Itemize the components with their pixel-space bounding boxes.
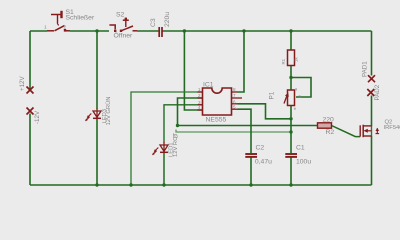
- wire trigger net to R2: [178, 125, 318, 127]
- junction top LED3: [95, 29, 98, 32]
- junction trigger net: [176, 124, 179, 127]
- junction pot net: [289, 117, 292, 120]
- junction R1 loop: [289, 76, 292, 79]
- wire wiper loop: [291, 78, 311, 98]
- switch S2: [109, 18, 137, 32]
- LED3: [85, 109, 101, 122]
- pin 5 stub of IC1: [232, 108, 238, 110]
- pin number 4: [198, 105, 201, 110]
- wire C1 to bottom: [290, 158, 292, 186]
- svg-text:2: 2: [198, 93, 201, 98]
- supply +12V pin cross: [27, 87, 34, 94]
- svg-text:4: 4: [198, 105, 201, 110]
- label C1 value: [296, 159, 311, 166]
- junction top R1: [289, 29, 292, 32]
- label PAD2: [374, 84, 381, 100]
- wire C3 to top-right corner: [163, 30, 372, 32]
- pad PAD1 cross: [368, 75, 375, 82]
- junction top x184: [183, 29, 186, 32]
- svg-text:PAD1: PAD1: [362, 61, 369, 77]
- svg-text:Schließer: Schließer: [66, 15, 95, 22]
- pin number 5: [233, 105, 236, 110]
- pin 3 stub of IC1: [198, 104, 203, 106]
- switch S1: [47, 11, 70, 32]
- capacitor C2: [245, 154, 257, 157]
- wire top net to IC1 pin4 via vertical x=184: [184, 31, 202, 110]
- svg-text:R2: R2: [326, 129, 335, 136]
- junction light net: [289, 130, 292, 133]
- svg-text:S2: S2: [116, 11, 125, 18]
- wire IC1 pin6 elbow to pot net: [238, 104, 292, 119]
- svg-text:NE555: NE555: [206, 117, 227, 124]
- junction top pin8: [242, 29, 245, 32]
- pin number 2: [198, 93, 201, 98]
- label S2 name: [116, 11, 125, 18]
- junction bottom LED1: [162, 183, 165, 186]
- label Q2 value IRF540: [384, 125, 400, 131]
- wire left vertical below -12V: [29, 114, 31, 186]
- svg-text:220: 220: [323, 116, 335, 123]
- wire light net y=132: [176, 130, 291, 133]
- wire through Q2 drain-source: [371, 126, 373, 136]
- label C3 value: [164, 12, 171, 27]
- svg-text:P1: P1: [269, 91, 276, 99]
- pin 4 stub of IC1: [198, 109, 203, 111]
- svg-text:IC1: IC1: [203, 81, 214, 88]
- label C2 value: [255, 159, 272, 166]
- wire bottom ground net: [30, 184, 372, 186]
- junction bottom LED3: [95, 183, 98, 186]
- pin number 8: [233, 87, 236, 92]
- pin number 7: [233, 93, 236, 98]
- pin label s of P1: [299, 94, 302, 99]
- pin 2 stub of IC1: [198, 97, 203, 99]
- wire IC1 pin8 to top net: [238, 31, 245, 92]
- wire IC1 pin5 to C2: [238, 109, 252, 153]
- wire P1 bottom to C1: [290, 106, 292, 154]
- svg-text:C3: C3: [150, 18, 157, 27]
- pin number 6: [233, 100, 236, 105]
- svg-text:12V GRÜN: 12V GRÜN: [105, 97, 112, 126]
- label C3 name: [150, 18, 157, 27]
- svg-text:2: 2: [64, 24, 67, 30]
- pin 6 stub of IC1: [232, 103, 238, 105]
- wire C2 to bottom: [250, 158, 252, 186]
- wire IC1 pin1 to left vertical: [131, 92, 203, 185]
- label S1 name: [66, 9, 75, 16]
- label LED3 name: [102, 109, 108, 124]
- pin number 1 of S1: [44, 25, 47, 31]
- svg-text:-12V: -12V: [34, 110, 41, 124]
- svg-text:1k: 1k: [294, 57, 299, 62]
- resistor R1: [288, 50, 295, 66]
- svg-text:1: 1: [198, 87, 201, 92]
- svg-text:C2: C2: [256, 145, 265, 152]
- wire Q2 source to bottom corner: [371, 136, 373, 185]
- label R1 value: [294, 57, 299, 62]
- label S2 value: [114, 32, 134, 40]
- wire IC1 pin2 down to R2 net: [178, 98, 203, 126]
- label S1 value: [66, 15, 95, 22]
- label P1 name: [269, 91, 276, 99]
- svg-text:1: 1: [44, 25, 47, 31]
- wire LED3 branch lower: [96, 120, 98, 186]
- label C2 name: [256, 145, 265, 152]
- wire top net from +12V corner to S1: [30, 31, 47, 89]
- pad PAD2 cross: [367, 89, 374, 96]
- pin number 2 of S1: [64, 24, 67, 30]
- wire LED1 to bottom: [163, 154, 165, 186]
- net label mark near light net: [174, 134, 180, 138]
- pin 7 stub of IC1: [232, 97, 243, 99]
- svg-text:IRF540: IRF540: [384, 125, 400, 131]
- label LED1 name: [168, 142, 174, 157]
- svg-text:D: D: [174, 134, 180, 138]
- capacitor C3: [159, 27, 162, 37]
- label -12V: [34, 110, 41, 124]
- label IC1 value NE555: [206, 117, 227, 124]
- wire R2 to Q2 gate: [332, 126, 361, 137]
- label R1 name: [281, 58, 286, 64]
- svg-text:8: 8: [233, 87, 236, 92]
- supply -12V pin cross: [27, 108, 34, 115]
- label Q2 name: [385, 120, 393, 126]
- wire PAD2 to Q2 drain: [371, 96, 373, 127]
- wire IC1 pin3 to LED1: [164, 105, 203, 143]
- pin number 3: [198, 100, 201, 105]
- junction bottom pin1: [129, 183, 132, 186]
- wire S2 to C3: [137, 30, 159, 32]
- label R2 value 220: [323, 116, 335, 123]
- svg-text:+12V: +12V: [19, 76, 26, 91]
- junction bottom C2: [249, 183, 252, 186]
- op IC1 NE555 body: [203, 88, 232, 115]
- label PAD1: [362, 61, 369, 77]
- label IC1 name: [203, 81, 214, 88]
- svg-text:R1: R1: [281, 58, 286, 64]
- pin number 1: [198, 87, 201, 92]
- wire R1 to P1: [290, 66, 292, 91]
- potentiometer P1: [284, 90, 295, 106]
- svg-text:Öffner: Öffner: [114, 32, 134, 40]
- transistor Q2 MOSFET: [360, 125, 379, 138]
- wire LED3 branch upper: [96, 31, 98, 109]
- pin label a of P1: [295, 87, 298, 92]
- label LED3 value: [105, 97, 112, 126]
- svg-text:0,47u: 0,47u: [255, 159, 272, 166]
- pin 8 stub of IC1: [232, 91, 238, 93]
- label R2 name: [326, 129, 335, 136]
- pin label e of P1: [294, 106, 297, 111]
- svg-text:7: 7: [233, 93, 236, 98]
- svg-text:5: 5: [233, 105, 236, 110]
- junction bottom C1: [289, 183, 292, 186]
- wire top net to R1: [290, 31, 292, 50]
- svg-text:PAD2: PAD2: [374, 84, 381, 100]
- svg-text:100u: 100u: [296, 159, 311, 166]
- label C1 name: [296, 145, 305, 152]
- LED1: [152, 142, 168, 155]
- wire right vertical to PAD1: [371, 31, 373, 76]
- label +12V: [19, 76, 26, 91]
- pin 1 stub of IC1: [198, 91, 203, 93]
- label LED1 value: [173, 132, 179, 157]
- svg-text:220u: 220u: [164, 12, 171, 27]
- wire S1 to S2: [70, 30, 109, 32]
- capacitor C1: [285, 154, 297, 157]
- svg-text:C1: C1: [296, 145, 305, 152]
- resistor R2: [318, 123, 332, 128]
